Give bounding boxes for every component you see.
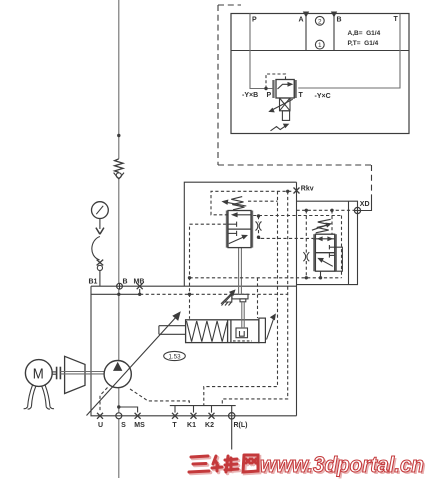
glyph san <box>189 456 209 472</box>
node pilot tap <box>264 87 267 90</box>
pilot line y=238 <box>258 236 260 238</box>
outer dashed boundary <box>218 5 372 199</box>
stroking cylinder rod <box>159 325 186 327</box>
spring top pilot <box>248 200 278 202</box>
wire gauge to coupling <box>99 219 101 230</box>
coupling circle <box>97 265 102 270</box>
coupling arrow (gauge line) <box>96 228 104 235</box>
stub to right valve top <box>331 210 333 234</box>
right control valve body <box>315 234 334 271</box>
pilot top line y=210 <box>297 209 355 211</box>
swash lever bar <box>232 294 248 299</box>
band divider 1 <box>305 14 307 51</box>
band divider 2 <box>333 14 335 51</box>
dashed pilot network <box>190 191 355 405</box>
feedback sleeve box <box>236 328 248 338</box>
end cap adjust arrow <box>267 318 275 340</box>
right valve dashed box <box>341 216 343 278</box>
bell housing <box>65 356 85 393</box>
wire XD stub <box>361 199 372 211</box>
circled number 2 <box>315 16 324 25</box>
left valve spring <box>231 197 244 210</box>
circled number 1 <box>315 40 324 49</box>
throttle column left <box>258 216 260 222</box>
arrow marker port A <box>303 12 309 18</box>
port S mark <box>116 413 122 419</box>
motor legs <box>28 385 33 407</box>
solenoid plug <box>282 111 289 121</box>
wire MB stub <box>139 289 141 294</box>
solenoid cartridge valve body <box>276 80 294 99</box>
solenoid coil box with X <box>280 98 291 111</box>
wire internal B line dashed <box>140 293 288 295</box>
right valve bottom cell blocked stub <box>329 254 334 256</box>
lever arrow <box>221 292 233 304</box>
wire T line subplate <box>298 14 400 89</box>
port K1 mark <box>191 413 197 419</box>
left valve spring pilot box <box>211 191 293 215</box>
port T mark <box>172 413 178 419</box>
port Rkv X mark <box>294 188 300 194</box>
minimess hose arc <box>92 237 100 261</box>
valve stem upper <box>239 248 242 295</box>
throttle left symbol <box>256 222 258 231</box>
node pilot dots <box>188 190 334 280</box>
riser cylinder control <box>257 278 259 318</box>
pump drain dashed to U <box>100 388 108 413</box>
inner wall XD channel <box>348 201 350 284</box>
glyph wei <box>212 456 238 472</box>
port K2 mark <box>209 413 215 419</box>
svg-text:www.3dportal.cn: www.3dportal.cn <box>260 452 424 477</box>
left valve spring adjust arrow <box>226 202 246 206</box>
chamber drain dashes <box>233 340 252 342</box>
left valve bottom cell diagonal arrow <box>229 237 244 244</box>
electric motor M1 circle <box>25 360 52 387</box>
riser B1 feed to valve pilot <box>190 224 227 319</box>
glyph wang <box>243 455 258 472</box>
subplate box <box>231 14 409 134</box>
wire internal B line solid <box>91 293 140 295</box>
right control valve gray bars <box>313 234 315 271</box>
solenoid valve pilot dashed <box>266 74 286 89</box>
arrow marker port B <box>331 12 337 18</box>
check valve ball and seat <box>116 173 121 178</box>
port MB marker <box>137 283 143 289</box>
wire main pressure line B (vertical) <box>118 0 120 478</box>
node on main line <box>117 134 120 137</box>
right valve stem <box>320 271 322 277</box>
pump flow triangle <box>113 362 122 371</box>
left valve bottom cell blocked stub <box>228 232 237 234</box>
port U mark <box>97 413 103 419</box>
riser drain left valve <box>204 191 278 405</box>
cylinder piston <box>227 320 229 342</box>
bottom port bracket <box>170 405 236 407</box>
check valve spring (on main line) <box>115 159 123 173</box>
coupling X (hose lower end) <box>97 260 104 266</box>
subplate band line <box>231 50 409 52</box>
wire R(L) drain down <box>231 419 233 449</box>
port R(L) mark <box>229 413 235 419</box>
solenoid proportional arrow <box>272 99 293 110</box>
node B internal <box>117 293 120 296</box>
port XD marker <box>354 207 360 213</box>
wire MS branch <box>119 407 138 413</box>
wire P line subplate <box>250 14 400 89</box>
pump unit enclosure box <box>91 286 297 416</box>
drive shaft <box>60 372 104 374</box>
pressure gauge <box>92 202 109 219</box>
pilot gallery y=278 <box>190 277 342 279</box>
right valve spring <box>316 219 331 233</box>
label 1.53 oval <box>164 351 186 360</box>
stroking cylinder body <box>186 320 259 343</box>
right valve feedback line <box>335 247 343 271</box>
valve body arrow <box>278 84 291 89</box>
cylinder bias spring <box>187 321 228 342</box>
cylinder end cap <box>259 318 266 343</box>
left valve top cell arrow <box>234 214 251 216</box>
port MS mark <box>135 413 141 419</box>
regulator annex box (right) <box>297 201 358 284</box>
left valve top cell blocked stub <box>228 223 237 225</box>
throttle right symbol <box>303 252 305 261</box>
left control valve body <box>228 211 251 248</box>
solenoid cartridge gray bars <box>272 80 274 98</box>
port B marker <box>117 283 123 289</box>
right valve top cell double arrow <box>313 238 335 240</box>
lever pivot triangle with hatching <box>225 295 232 302</box>
wire coupling to port B1 <box>99 271 101 287</box>
pump drain dashed to bracket <box>130 389 189 406</box>
regulator block outline <box>184 182 296 286</box>
pump P1 circle <box>104 361 131 388</box>
node case drain <box>117 405 120 408</box>
riser Rkv drain <box>222 191 287 405</box>
pilot line y=215.5 <box>253 215 341 217</box>
pump variable displacement arrow <box>87 316 178 416</box>
valve stem lower <box>242 302 244 328</box>
shaft coupling <box>57 367 61 380</box>
left control valve gray bars <box>226 211 228 248</box>
right valve bottom cell diagonal arrow <box>321 260 333 266</box>
swash lever small box <box>240 299 246 302</box>
right valve spring adjust arrow <box>312 225 328 230</box>
electric connection zigzag arrow <box>271 126 287 131</box>
